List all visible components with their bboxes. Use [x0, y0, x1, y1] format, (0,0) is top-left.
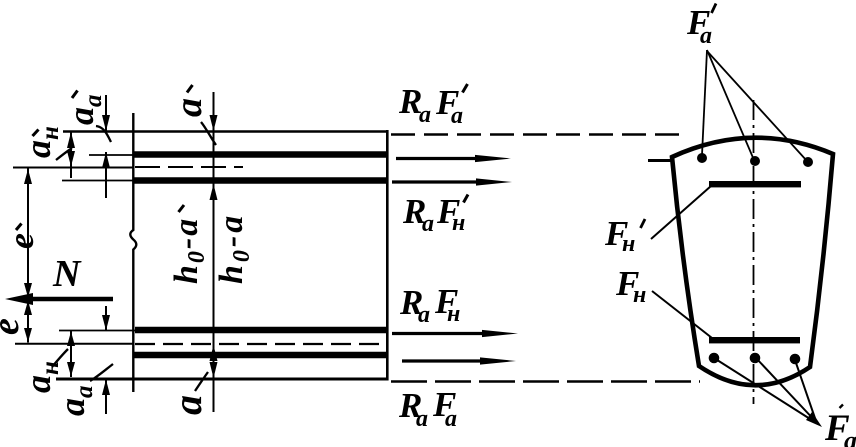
- svg-text:a: a: [700, 23, 712, 49]
- label F_n': [604, 214, 645, 257]
- cross-section outline: [672, 138, 833, 386]
- svg-text:N: N: [52, 253, 82, 295]
- svg-text:a: a: [844, 426, 856, 447]
- section bottom rebar dots F_a: [709, 353, 720, 364]
- top dashed projection line: [391, 133, 688, 136]
- fan lines from F_a' label to top dots: [702, 50, 707, 155]
- bottom dashed projection line: [391, 380, 700, 383]
- leader tick a_n': [56, 148, 72, 160]
- label R_a F_a': [398, 82, 468, 129]
- leader tick a': [201, 122, 216, 145]
- top reinforcement axis line (solid left part): [13, 167, 133, 169]
- label h0-a': [168, 205, 210, 284]
- force arrow R_a F_n: [392, 330, 518, 337]
- svg-text:h0-a: h0-a: [213, 213, 255, 284]
- label e': [1, 224, 41, 250]
- bottom rebar F_a bar: [135, 327, 387, 334]
- beam left edge with break: [130, 113, 136, 392]
- top rebar F_a' bar: [133, 151, 387, 158]
- svg-text:н: н: [452, 210, 465, 236]
- beam right edge (section cut): [386, 130, 389, 381]
- dimension e' line: [24, 169, 32, 299]
- label R_a F_n': [402, 192, 468, 237]
- leader F_n': [651, 186, 711, 239]
- svg-text:a: a: [418, 302, 430, 328]
- bottom rebar F_a extension line: [59, 330, 135, 332]
- svg-text:aн: aн: [18, 126, 64, 158]
- arrow a' upper (down onto top edge): [210, 115, 218, 131]
- force arrow R_a F_a: [402, 357, 516, 364]
- svg-text:e: e: [0, 318, 27, 335]
- svg-text:н: н: [633, 282, 646, 308]
- arrow a' lower (up onto bar): [210, 184, 218, 200]
- svg-text:a: a: [451, 103, 463, 129]
- svg-text:e: e: [1, 233, 41, 249]
- label F_a: [824, 405, 856, 447]
- svg-text:н: н: [447, 301, 460, 327]
- section top bar F_n': [709, 181, 801, 187]
- beam top edge: [63, 130, 388, 133]
- leader tick a: [195, 372, 208, 391]
- beam bottom edge: [56, 378, 388, 381]
- dimension a_n' vertical line top: [67, 132, 75, 179]
- svg-text:a: a: [422, 211, 434, 237]
- svg-text:a: a: [416, 406, 428, 432]
- label F_a': [686, 3, 716, 49]
- dimension a_a bottom line: [102, 306, 110, 414]
- section centerline: [753, 100, 755, 404]
- short dash left of section: [648, 159, 672, 162]
- force arrow R_a F_n': [392, 178, 512, 185]
- top rebar F_n' extension line: [62, 180, 133, 182]
- leader tick a_a': [96, 126, 111, 142]
- bottom reinforcement axis line (solid left part): [15, 343, 133, 345]
- section top rebar dots F_a': [697, 153, 707, 163]
- top reinforcement axis line (dashed inside beam): [135, 166, 243, 168]
- svg-text:a: a: [419, 102, 431, 128]
- arrow a lower dim down: [210, 362, 218, 378]
- section bottom bar F_n: [709, 337, 800, 343]
- dimension a_a' vertical line top: [102, 95, 110, 198]
- label F_n: [615, 264, 646, 308]
- leader F_n: [652, 291, 712, 338]
- svg-text:h0-a: h0-a: [168, 217, 210, 284]
- top rebar F_a' extension line: [89, 154, 133, 156]
- bottom rebar F_n bar: [133, 352, 387, 359]
- svg-text:a: a: [168, 98, 210, 117]
- force N arrow: [5, 293, 113, 305]
- bottom reinforcement axis line (dashed inside beam): [135, 343, 381, 345]
- arrow a lower dim up: [210, 345, 218, 361]
- label R_a F_n: [399, 282, 460, 328]
- leader tick a_a: [90, 364, 113, 381]
- label R_a F_a: [398, 385, 457, 432]
- svg-text:aa: aa: [52, 386, 98, 417]
- label a_n': [18, 126, 64, 158]
- leader tick a_n: [52, 349, 68, 367]
- force arrow R_a F_a': [396, 155, 511, 162]
- svg-text:н: н: [622, 231, 635, 257]
- svg-text:aн: aн: [18, 361, 64, 393]
- svg-text:a: a: [445, 406, 457, 432]
- svg-text:a: a: [165, 395, 210, 415]
- top rebar F_n' bar: [133, 177, 387, 184]
- label a' (top): [168, 85, 210, 117]
- label a_a': [61, 91, 107, 126]
- dimension e line: [24, 300, 32, 343]
- fan lines from bottom dots to F_a label: [714, 358, 818, 424]
- svg-text:aa: aa: [61, 95, 107, 126]
- dimension line h0 (vertical): [213, 92, 215, 412]
- dimension a_n bottom line: [67, 331, 75, 377]
